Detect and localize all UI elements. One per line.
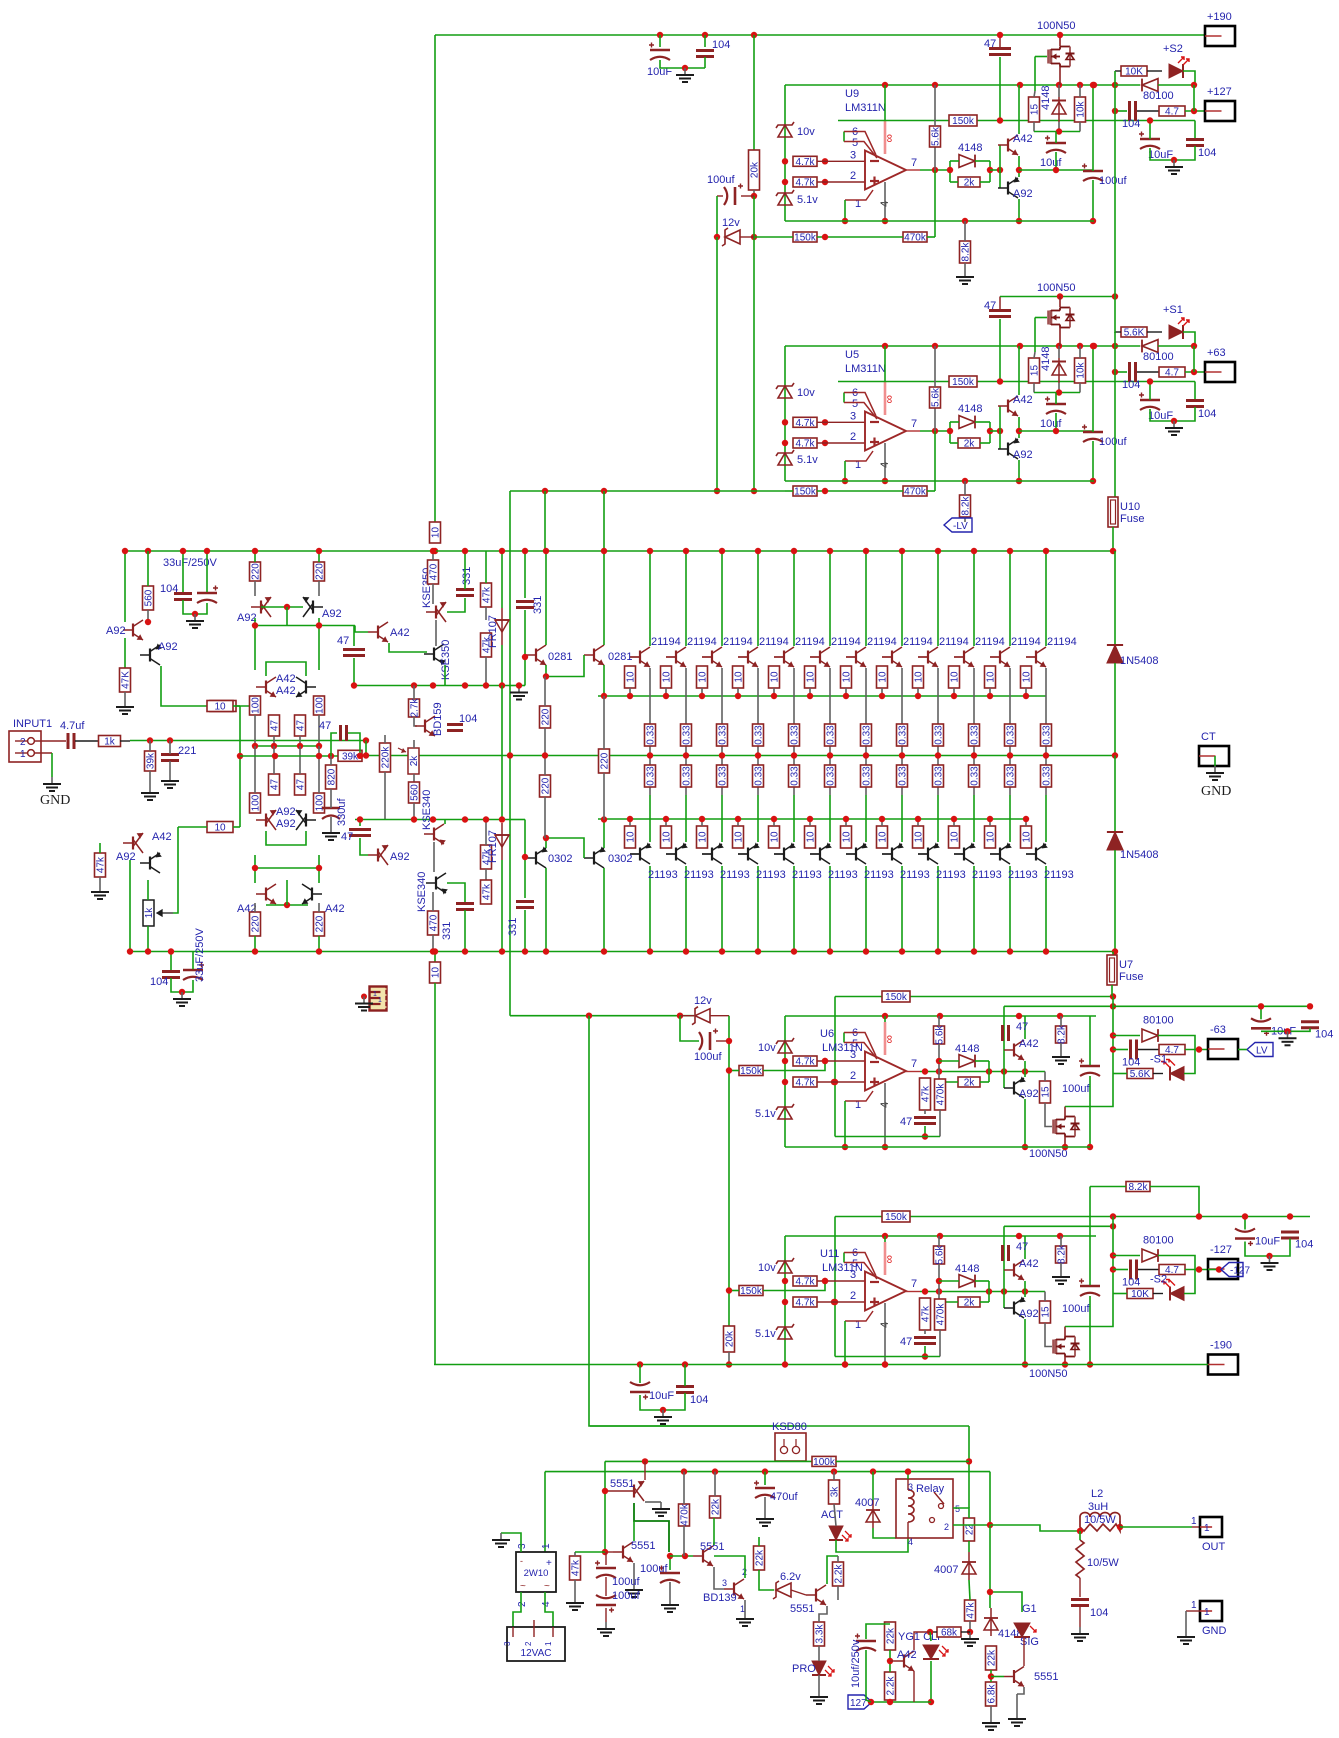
- resistor 10/5W zobel: [1076, 1540, 1084, 1578]
- wire: [1009, 745, 1011, 775]
- resistor 15 U5: [1029, 358, 1041, 383]
- wire: [1158, 84, 1195, 86]
- junction: [882, 1233, 888, 1239]
- capacitor 100uf U6: [1079, 1059, 1100, 1077]
- wire: [669, 1582, 671, 1598]
- wire bases column: [1003, 1006, 1005, 1088]
- junction: [936, 1079, 942, 1085]
- svg-text:2k: 2k: [964, 178, 976, 189]
- wire: [950, 421, 959, 423]
- wire down to relay: [968, 1426, 970, 1508]
- wire frame: [834, 997, 836, 1137]
- resistor 2k U9: [958, 177, 980, 189]
- junction: [1056, 82, 1062, 88]
- wire pin3: [817, 1060, 865, 1062]
- terminal INPUT1: [9, 731, 41, 762]
- svg-text:104: 104: [712, 39, 730, 51]
- svg-text:5.1v: 5.1v: [797, 454, 818, 466]
- wire collector Q12 top: [1045, 551, 1047, 646]
- wire: [34, 752, 52, 754]
- net tag LV: [1247, 1043, 1273, 1057]
- wire: [1184, 1270, 1195, 1294]
- transistor A92 mirror TR: [303, 597, 323, 617]
- junction: [915, 693, 921, 699]
- wire base: [630, 853, 640, 855]
- wire base: [1026, 656, 1036, 658]
- svg-text:10: 10: [1022, 831, 1033, 843]
- wire: [413, 740, 415, 748]
- svg-text:3.3k: 3.3k: [815, 1624, 826, 1644]
- wire: [701, 688, 703, 696]
- wire: [684, 1365, 686, 1387]
- junction: [1077, 343, 1083, 349]
- junction: [726, 1287, 732, 1293]
- resistor 10 base PNP #4: [733, 826, 745, 848]
- wire 0302A collector: [545, 868, 547, 952]
- junction: [1007, 752, 1013, 758]
- junction: [1056, 389, 1062, 395]
- capacitor 104 top left: [174, 594, 192, 600]
- wire 0281B collector: [603, 551, 605, 645]
- wire relay 2: [953, 1524, 990, 1526]
- diode 4148 g1: [984, 1608, 998, 1636]
- svg-text:220: 220: [600, 752, 611, 769]
- resistor 100 BR: [314, 793, 326, 813]
- wire rail1: [605, 1460, 813, 1462]
- wire emitters: [1024, 1061, 1026, 1077]
- resistor 22k prot: [710, 1496, 722, 1518]
- wire upper bias row: [357, 685, 510, 687]
- resistor 20k U11: [724, 1326, 736, 1352]
- wire: [785, 490, 793, 492]
- wire: [716, 237, 718, 491]
- resistor 8.2k U6: [1056, 1024, 1068, 1044]
- wire KSD80 link: [589, 1016, 793, 1426]
- wire: [1025, 688, 1027, 696]
- wire collector Q8 top: [901, 551, 903, 646]
- ground out caps: [1165, 160, 1183, 174]
- svg-text:10uf: 10uf: [1040, 157, 1062, 169]
- resistor 0.33 upper #7: [861, 724, 873, 746]
- ground CT: [1206, 766, 1224, 780]
- wire A42 collector: [914, 1632, 930, 1650]
- svg-text:4148: 4148: [955, 1263, 979, 1275]
- zener 5.1v U5: [776, 450, 794, 465]
- transistor KSE350 b: [424, 644, 446, 666]
- ground PRO: [810, 1690, 828, 1704]
- svg-text:0.33: 0.33: [934, 766, 945, 786]
- wire: [384, 735, 386, 743]
- junction: [842, 478, 848, 484]
- svg-text:10: 10: [431, 967, 442, 979]
- wire: [1185, 1269, 1208, 1271]
- svg-text:21194: 21194: [759, 636, 789, 648]
- wire Q3 collector: [713, 1518, 715, 1545]
- wire: [413, 686, 415, 700]
- svg-text:21194: 21194: [651, 636, 681, 648]
- resistor 3.3k: [814, 1622, 826, 1646]
- svg-text:10k: 10k: [1076, 100, 1087, 117]
- wire: [1115, 70, 1121, 72]
- junction: [842, 218, 848, 224]
- wire: [1185, 110, 1205, 112]
- junction: [822, 234, 828, 240]
- wire: [1016, 1694, 1018, 1712]
- wire: [685, 745, 687, 775]
- wire: [901, 775, 903, 795]
- wire: [254, 936, 256, 952]
- capacitor 104 term row: [1131, 1040, 1137, 1060]
- junction: [987, 1522, 993, 1528]
- svg-text:3: 3: [908, 1482, 913, 1492]
- junction: [831, 1299, 837, 1305]
- capacitor 100uf U6: [699, 1029, 718, 1051]
- wire: [447, 883, 465, 902]
- junction: [145, 948, 151, 954]
- wire: [1055, 152, 1057, 170]
- ground vas mid: [510, 686, 528, 700]
- wire pin 7: [906, 169, 920, 171]
- wire: [710, 1015, 729, 1017]
- wire emitters: [1024, 1281, 1026, 1297]
- MOSFET 100N50 U6: [1054, 1117, 1080, 1137]
- wire: [793, 745, 795, 775]
- wire: [147, 926, 149, 952]
- wire: [953, 688, 955, 696]
- wire: [1184, 1050, 1195, 1074]
- diode FR107 bottom: [495, 823, 509, 860]
- resistor 39k input: [145, 751, 157, 771]
- junction: [1043, 948, 1049, 954]
- wire bias feed upper: [239, 706, 241, 756]
- svg-text:47: 47: [1016, 1021, 1028, 1033]
- wire: [434, 983, 436, 1365]
- wire Q2 base: [605, 1551, 613, 1553]
- svg-text:A42: A42: [390, 627, 410, 639]
- svg-text:4007: 4007: [934, 1564, 958, 1576]
- svg-text:21194: 21194: [795, 636, 825, 648]
- wire: [1153, 1293, 1163, 1295]
- wire: [990, 169, 1000, 171]
- junction: [252, 948, 258, 954]
- wire: [1193, 85, 1195, 111]
- svg-text:0.33: 0.33: [790, 766, 801, 786]
- wire: [744, 1600, 746, 1612]
- wire: [721, 745, 723, 775]
- junction: [363, 752, 369, 758]
- wire: [721, 795, 723, 842]
- svg-text:80100: 80100: [1143, 1015, 1174, 1027]
- transistor A92 U5: [998, 437, 1020, 459]
- resistor 0.33 lower #7: [861, 765, 873, 787]
- svg-text:KSE350: KSE350: [440, 640, 452, 680]
- ground caps bottom left: [173, 992, 191, 1006]
- svg-text:5551: 5551: [790, 1603, 814, 1615]
- svg-text:1: 1: [541, 1543, 552, 1549]
- svg-text:A92: A92: [276, 818, 296, 830]
- wire cap top: [999, 35, 1001, 47]
- wire base: [810, 656, 820, 658]
- wire: [124, 692, 126, 700]
- wire mirror tie: [266, 904, 308, 906]
- resistor 2k U11: [958, 1297, 980, 1309]
- junction: [1196, 1046, 1202, 1052]
- junction: [681, 1468, 687, 1474]
- svg-text:33uF/250V: 33uF/250V: [194, 928, 206, 982]
- MOSFET 100N50 U9: [1049, 47, 1075, 67]
- svg-text:220: 220: [541, 777, 552, 794]
- svg-text:4.7k: 4.7k: [796, 1298, 816, 1309]
- wire: [1158, 1256, 1195, 1270]
- wire base: [918, 656, 928, 658]
- wire Q2 emitter: [633, 1563, 635, 1583]
- resistor 10 base NPN #4: [733, 666, 745, 688]
- svg-text:33uF/250V: 33uF/250V: [163, 557, 217, 569]
- transistor A42 mirror BL: [256, 884, 276, 904]
- wire: [1261, 1028, 1310, 1031]
- svg-text:22k: 22k: [987, 1649, 998, 1666]
- wire bases line U11: [1004, 1225, 1113, 1227]
- wire: [834, 1504, 836, 1526]
- svg-text:10: 10: [770, 831, 781, 843]
- svg-text:47k: 47k: [921, 1305, 932, 1322]
- junction: [936, 1299, 942, 1305]
- wire: [845, 688, 847, 696]
- junction: [1191, 108, 1197, 114]
- transistor 0302 driver A: [526, 846, 548, 868]
- wire collector Q5 top: [793, 551, 795, 646]
- heatsink symbol: [370, 987, 387, 1011]
- svg-text:2: 2: [944, 1522, 949, 1532]
- svg-text:5.6k: 5.6k: [931, 126, 942, 146]
- resistor 560: [143, 586, 155, 610]
- diode 4007 b: [962, 1552, 976, 1580]
- wire pin3: [817, 1280, 865, 1282]
- junction: [882, 82, 888, 88]
- junction: [842, 1144, 848, 1150]
- wire output sense drop: [989, 1525, 991, 1608]
- capacitor 104 terminal row: [1130, 101, 1136, 121]
- junction: [647, 548, 653, 554]
- resistor 47k 3: [481, 845, 493, 869]
- junction: [316, 622, 322, 628]
- svg-text:2.2k: 2.2k: [834, 1564, 845, 1584]
- junction: [822, 1058, 828, 1064]
- wire collector Q4 top: [757, 551, 759, 646]
- junction: [971, 548, 977, 554]
- svg-text:2: 2: [850, 1290, 856, 1302]
- svg-text:-127: -127: [1210, 1244, 1232, 1256]
- svg-text:331: 331: [532, 596, 544, 614]
- wire collector Q9 bottom: [937, 866, 939, 952]
- transistor A92 U6: [1004, 1076, 1026, 1098]
- junction: [1022, 1068, 1028, 1074]
- capacitor 100uf U11: [1079, 1279, 1100, 1297]
- junction: [987, 167, 993, 173]
- junction: [1110, 1223, 1116, 1229]
- wire: [1185, 1611, 1187, 1630]
- wire base: [882, 853, 892, 855]
- junction: [601, 948, 607, 954]
- svg-text:LV: LV: [1256, 1046, 1268, 1057]
- wire: [793, 775, 795, 795]
- wire relay coil top: [907, 1472, 909, 1479]
- thermal switch KSD80: [775, 1433, 806, 1461]
- resistor 47k q2: [570, 1556, 582, 1580]
- wire pin 5: [844, 142, 877, 159]
- svg-text:1: 1: [1191, 1600, 1197, 1611]
- svg-text:20k: 20k: [750, 161, 761, 178]
- wire pin 7: [906, 1071, 920, 1073]
- svg-text:104: 104: [160, 583, 178, 595]
- junction: [1022, 1288, 1028, 1294]
- capacitor 100uf U9: [1082, 164, 1103, 182]
- diode FR107 top: [495, 608, 509, 645]
- ground terminal: [1177, 1630, 1195, 1644]
- svg-text:10: 10: [1022, 671, 1033, 683]
- wire: [1238, 1049, 1247, 1051]
- svg-text:47: 47: [337, 635, 349, 647]
- ground -190 caps: [654, 1410, 672, 1424]
- wire -bus to drain: [1065, 997, 1113, 1107]
- wire: [980, 181, 990, 183]
- wire: [649, 795, 651, 842]
- ground 8.2k U9: [956, 270, 974, 284]
- svg-text:80100: 80100: [1143, 90, 1174, 102]
- wire pin 1: [845, 190, 873, 200]
- junction: [522, 948, 528, 954]
- resistor 5.6k U6: [934, 1025, 946, 1045]
- junction: [822, 1278, 828, 1284]
- wire: [353, 626, 355, 647]
- junction: [1284, 1028, 1290, 1034]
- wire: [233, 705, 240, 707]
- capacitor 47 top: [343, 650, 365, 656]
- wire: [1079, 1578, 1081, 1597]
- capacitor 100uf U9 aux: [724, 184, 743, 206]
- svg-text:331: 331: [507, 918, 519, 936]
- wire emitter Q4: [757, 668, 759, 725]
- wire: [432, 584, 434, 604]
- ground caps: [1279, 1031, 1297, 1045]
- wire: [930, 1631, 937, 1633]
- wire: [950, 442, 958, 444]
- resistor 10 base PNP #5: [769, 826, 781, 848]
- terminal -63: [1208, 1039, 1238, 1059]
- svg-text:47: 47: [296, 720, 307, 732]
- wire base: [954, 656, 964, 658]
- junction: [663, 816, 669, 822]
- junction: [1017, 82, 1023, 88]
- svg-text:5: 5: [852, 1038, 858, 1050]
- svg-text:0.33: 0.33: [1006, 766, 1017, 786]
- junction: [832, 1299, 838, 1305]
- svg-text:47k: 47k: [921, 1085, 932, 1102]
- wire A92 collector: [1018, 199, 1020, 221]
- wire: [1114, 850, 1116, 952]
- diode 4148 U6: [959, 1055, 975, 1068]
- capacitor 10uF out: [1139, 132, 1160, 150]
- wire: [524, 820, 526, 899]
- junction: [1110, 1003, 1116, 1009]
- resistor 10 base NPN #8: [877, 666, 889, 688]
- junction: [719, 948, 725, 954]
- wire: [1114, 663, 1116, 756]
- wire V2 drop to U6: [509, 491, 511, 1016]
- transistor 21194 #7: [846, 647, 866, 667]
- junction: [899, 948, 905, 954]
- wire: [645, 1501, 661, 1503]
- resistor 10 base NPN #7: [841, 666, 853, 688]
- svg-text:10v: 10v: [758, 1262, 776, 1274]
- junction: [712, 1468, 718, 1474]
- wire: [544, 728, 546, 756]
- wire: [1079, 85, 1081, 97]
- wire collector Q8 bottom: [901, 866, 903, 952]
- resistor 220 driver upper: [540, 706, 552, 728]
- wire: [120, 740, 130, 742]
- svg-text:10: 10: [626, 831, 637, 843]
- wire: [793, 795, 795, 842]
- wire pin1 down: [844, 1101, 846, 1147]
- wire: [124, 551, 126, 622]
- wire: [432, 935, 434, 952]
- wire: [359, 820, 361, 827]
- svg-text:-S2: -S2: [1150, 1274, 1167, 1286]
- svg-text:0.33: 0.33: [862, 766, 873, 786]
- transistor 21194 #9: [918, 647, 938, 667]
- wire input to fb node: [365, 741, 367, 756]
- wire: [1092, 180, 1094, 221]
- svg-text:4.7k: 4.7k: [796, 1057, 816, 1068]
- svg-text:21194: 21194: [687, 636, 717, 648]
- wire U6 feed: [510, 1015, 694, 1017]
- svg-text:220: 220: [251, 563, 262, 580]
- junction: [936, 1278, 942, 1284]
- wire: [501, 645, 503, 686]
- wire: [318, 936, 320, 952]
- wire: [1055, 413, 1057, 431]
- wire: [1058, 122, 1060, 132]
- svg-text:104: 104: [1315, 1028, 1333, 1040]
- svg-text:5.6k: 5.6k: [931, 387, 942, 407]
- wire: [1092, 346, 1094, 432]
- junction: [1016, 478, 1022, 484]
- svg-text:CT: CT: [1201, 731, 1216, 743]
- wire: [866, 1624, 890, 1639]
- wire pin 1: [845, 1311, 873, 1321]
- wire: [961, 1631, 970, 1633]
- svg-text:150k: 150k: [885, 992, 908, 1003]
- svg-text:KSD80: KSD80: [772, 1421, 807, 1433]
- wire: [704, 35, 706, 47]
- resistor 10 rail dropper top: [430, 522, 442, 543]
- capacitor 104 out: [1186, 401, 1204, 407]
- svg-text:10: 10: [950, 671, 961, 683]
- svg-text:104: 104: [459, 713, 477, 725]
- svg-text:3uH: 3uH: [1088, 1501, 1108, 1513]
- junction: [351, 682, 357, 688]
- capacitor 10uf U9: [1045, 136, 1066, 154]
- svg-text:0281: 0281: [608, 651, 632, 663]
- junction: [1258, 1003, 1264, 1009]
- net tag -127: [1221, 1263, 1250, 1277]
- wire: [939, 1081, 958, 1083]
- transistor A42 U9: [998, 135, 1018, 155]
- svg-text:104: 104: [1295, 1239, 1313, 1251]
- wire: [740, 236, 754, 238]
- junction: [601, 488, 607, 494]
